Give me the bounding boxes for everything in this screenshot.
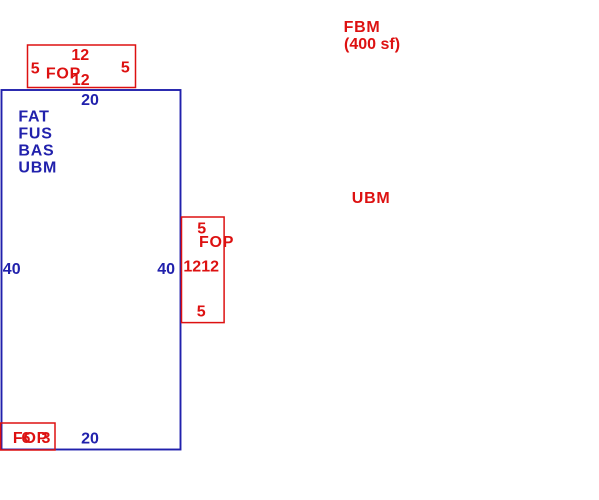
svg-text:12: 12	[71, 47, 89, 64]
main dwelling outline (20 x 40)	[2, 90, 181, 450]
porch FOP outline (top, 12 x 5)	[28, 45, 136, 88]
svg-text:FOP: FOP	[199, 234, 234, 251]
svg-text:FAT: FAT	[18, 109, 49, 126]
svg-text:3: 3	[42, 430, 51, 447]
svg-text:5: 5	[31, 61, 40, 78]
svg-text:BAS: BAS	[18, 143, 54, 160]
svg-text:5: 5	[121, 60, 130, 77]
svg-text:FUS: FUS	[18, 126, 52, 143]
porch FOP outline (right, 5 x 12)	[182, 217, 225, 323]
svg-text:UBM: UBM	[18, 160, 57, 177]
svg-text:12: 12	[72, 72, 90, 89]
svg-text:20: 20	[81, 92, 99, 109]
svg-text:FBM: FBM	[344, 19, 381, 36]
svg-text:6: 6	[22, 430, 31, 447]
svg-text:5: 5	[197, 304, 206, 321]
svg-text:(400 sf): (400 sf)	[344, 36, 400, 53]
svg-text:20: 20	[81, 431, 99, 448]
svg-text:40: 40	[157, 261, 175, 278]
svg-text:1212: 1212	[183, 259, 219, 276]
porch FOP outline (bottom-left, 6 x 3)	[1, 423, 55, 450]
svg-text:UBM: UBM	[352, 190, 391, 207]
svg-text:40: 40	[3, 261, 21, 278]
